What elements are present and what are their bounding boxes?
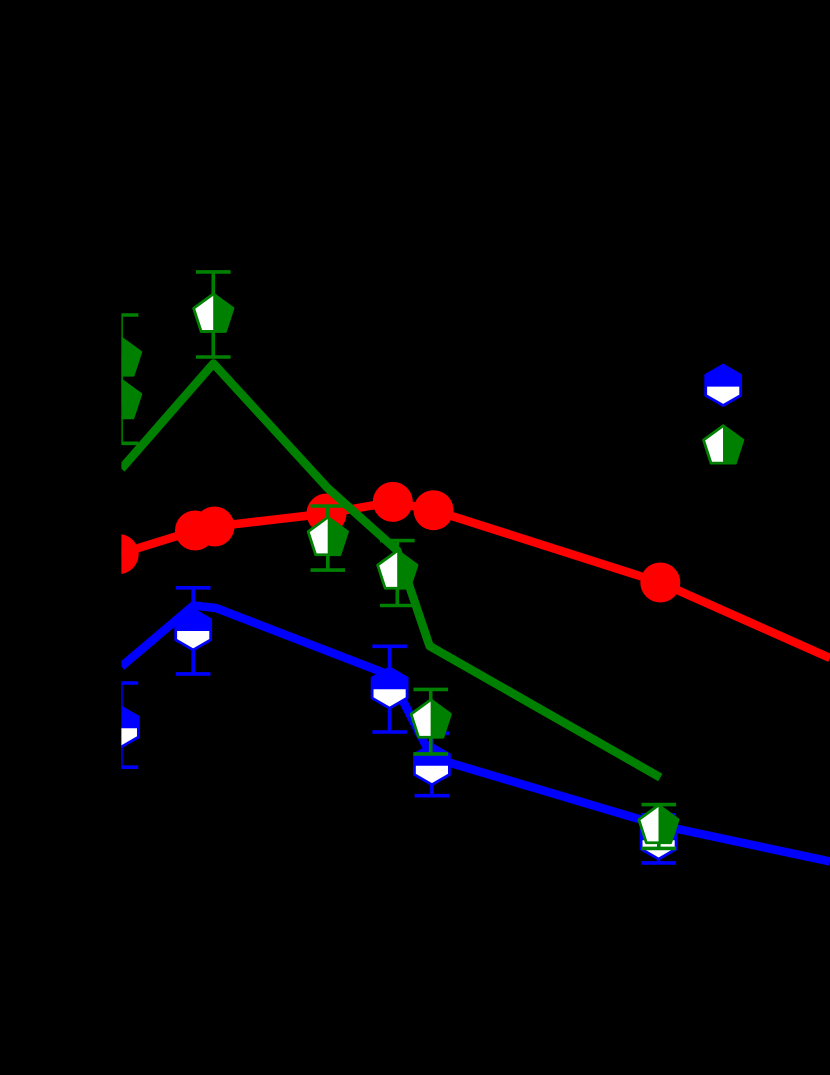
B5 error bar (657, 815, 661, 863)
G3 error bar (212, 272, 216, 357)
B2 error bar (191, 588, 195, 674)
green data line (121, 364, 660, 778)
red data line (119, 502, 830, 658)
G5b error bar (429, 689, 433, 754)
B3 error bar (388, 646, 392, 732)
B1 error bar (119, 683, 123, 767)
red circle markers (99, 534, 139, 574)
G4 error bar (326, 506, 330, 570)
G0 clipped cap (99, 416, 134, 420)
green pentagon markers (101, 338, 140, 375)
G1 error bar (119, 315, 123, 402)
B4 error bar (430, 733, 434, 795)
G2 error bar (119, 358, 123, 444)
G5 error bar (395, 541, 399, 606)
blue hexagon markers (103, 707, 138, 747)
blue data line (121, 606, 830, 862)
G6 error bar (657, 805, 661, 849)
